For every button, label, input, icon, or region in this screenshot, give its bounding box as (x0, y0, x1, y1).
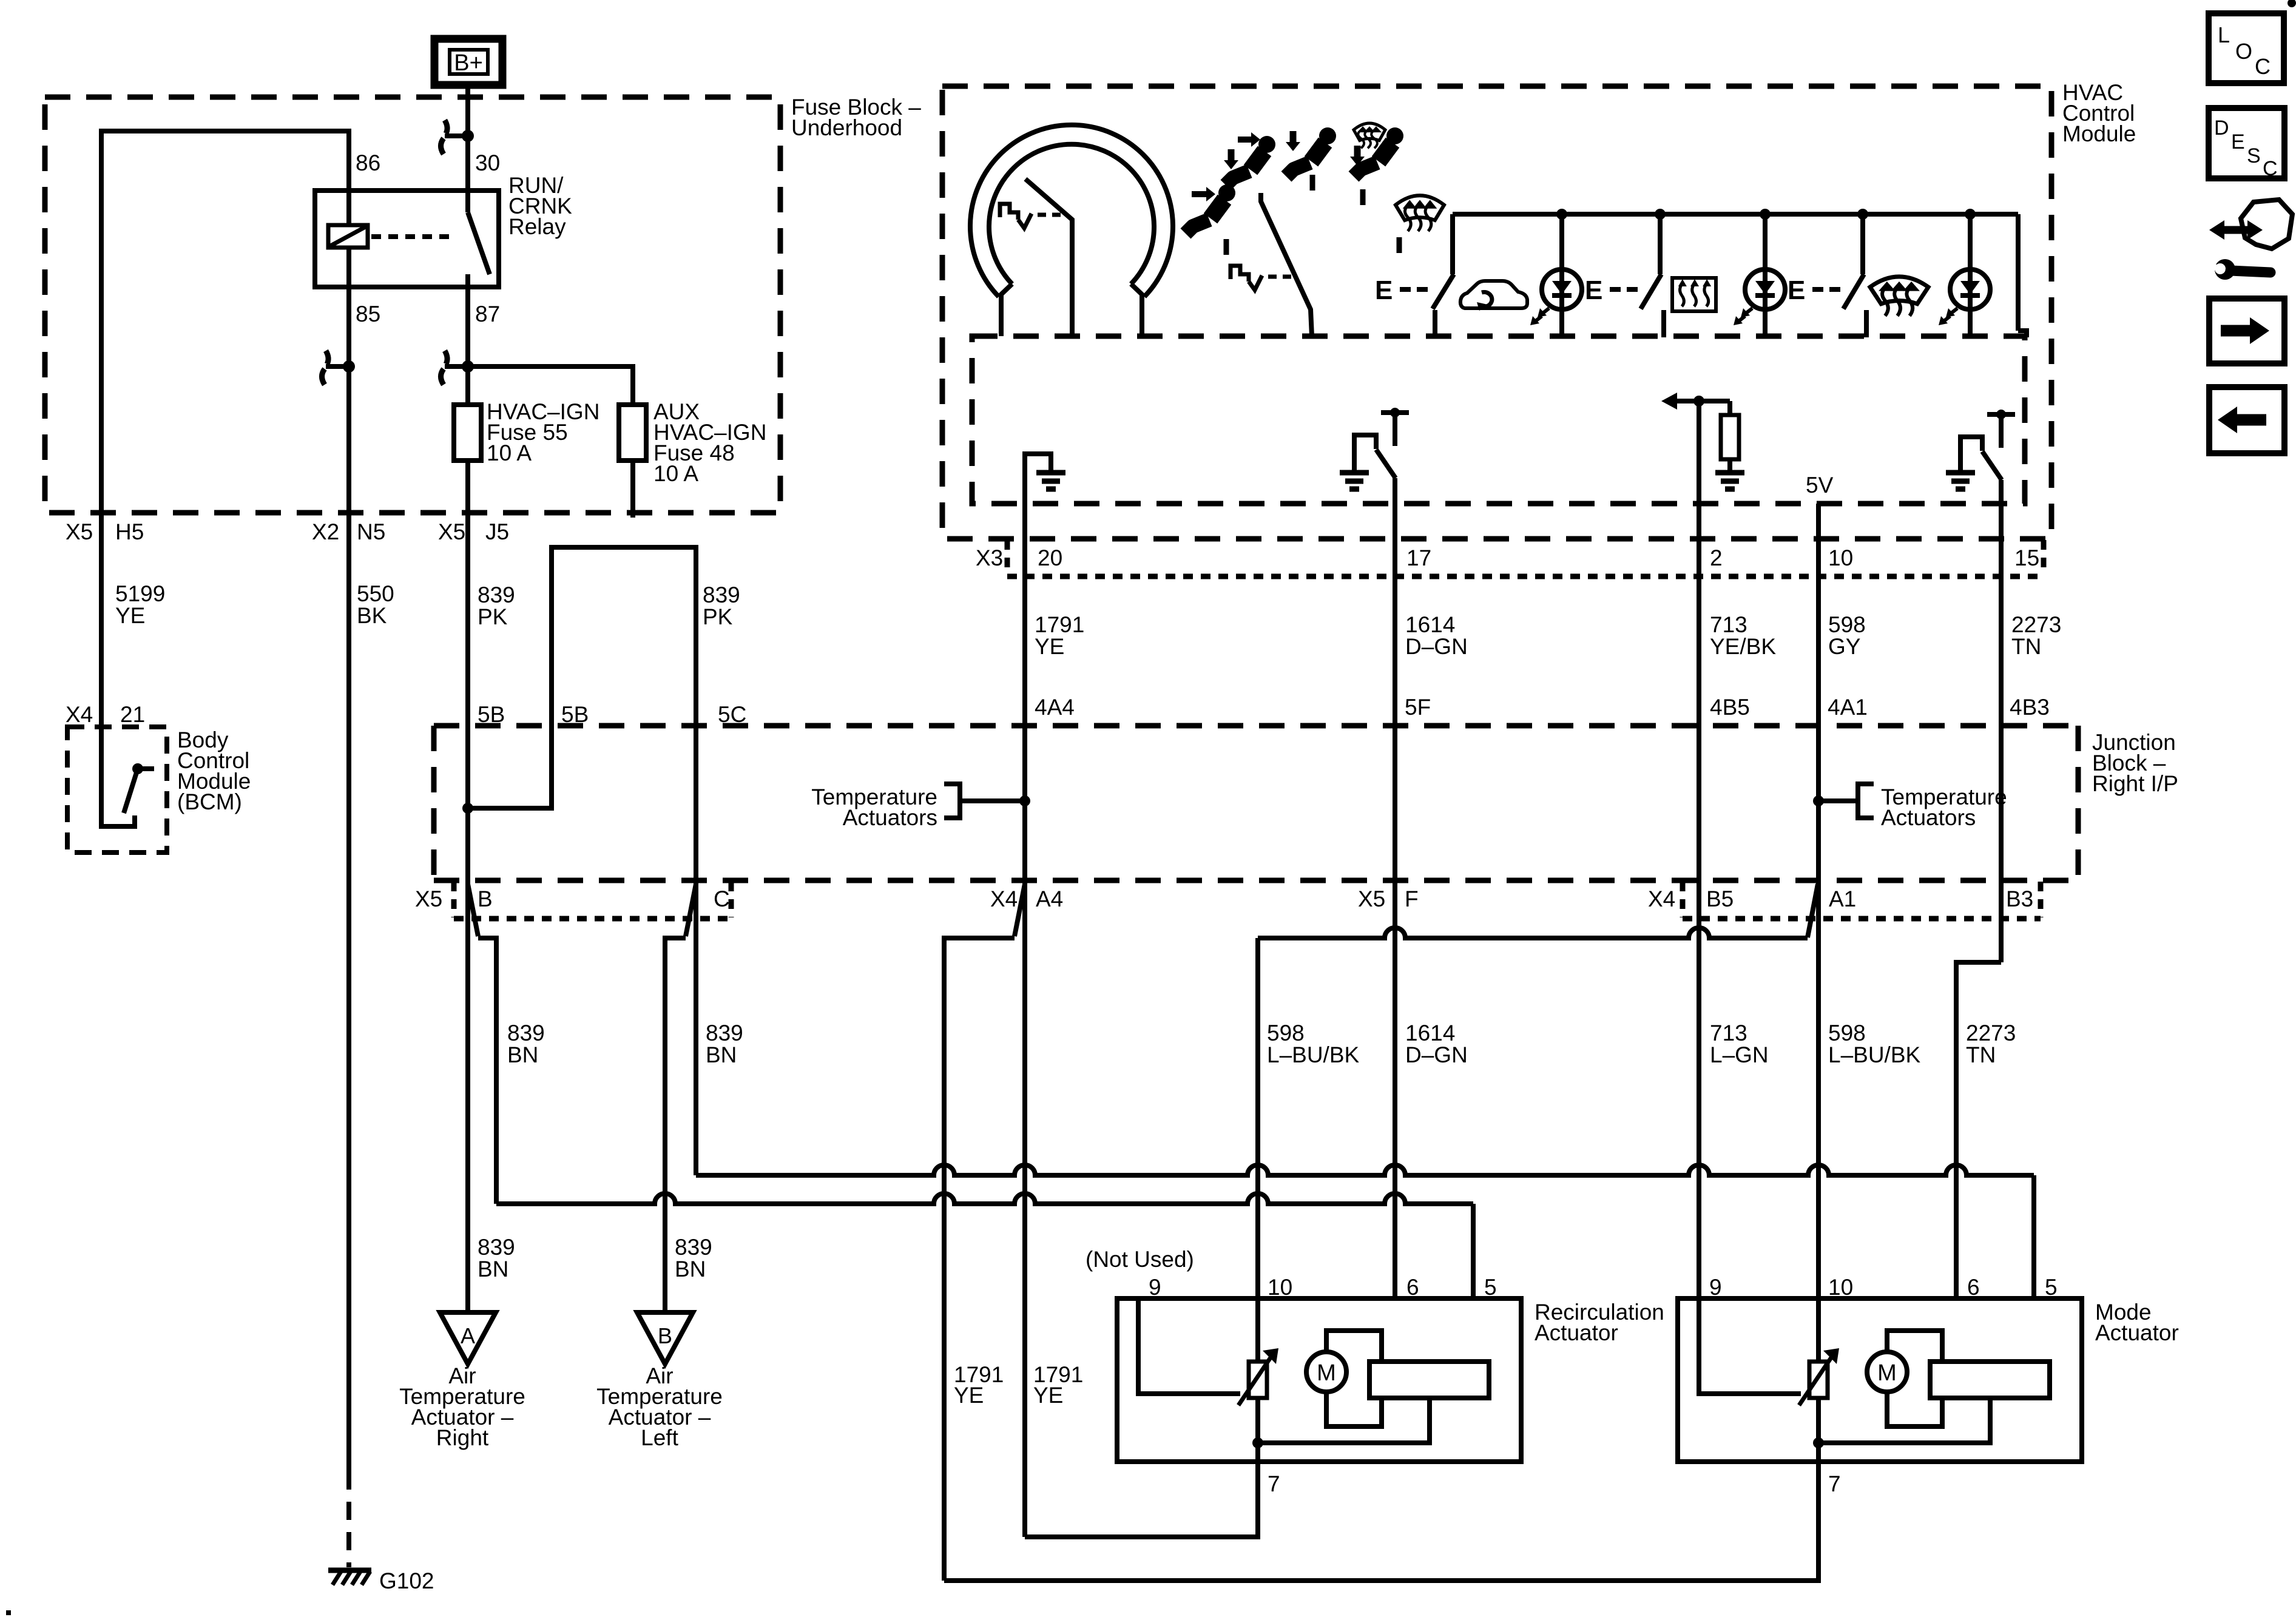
rear defrost icon (1672, 278, 1716, 311)
svg-text:X3: X3 (976, 545, 1003, 570)
connector X4 B5 A1 B3 box (1680, 882, 1686, 917)
svg-text:X5: X5 (1358, 886, 1385, 911)
connector X5 B C box (451, 882, 457, 917)
page artifact dots (2288, 0, 2296, 7)
svg-text:G102: G102 (379, 1568, 434, 1593)
body control module dashed box (67, 727, 167, 852)
svg-text:6: 6 (1967, 1275, 1980, 1300)
jog bus A1 to recirc pin 10 (1258, 928, 1808, 938)
motor lead wires (1326, 1331, 1382, 1362)
wire mode pin 7 return (1791 YE) (944, 1462, 1818, 1581)
svg-text:Module: Module (2062, 121, 2136, 146)
relay switch contact (465, 191, 470, 212)
fuse block - underhood dashed box (45, 97, 780, 513)
svg-text:L–BU/BK: L–BU/BK (1828, 1042, 1921, 1067)
branch wire to AUX fuse (468, 366, 633, 405)
svg-text:2273: 2273 (1966, 1021, 2016, 1045)
wire recirc pin 7 return (1791 YE) (1025, 1462, 1258, 1537)
svg-text:B: B (478, 886, 493, 911)
svg-text:10: 10 (1828, 545, 1853, 570)
knob Ev motor symbol (1000, 204, 1018, 220)
svg-text:A4: A4 (1036, 886, 1063, 911)
svg-text:20: 20 (1038, 545, 1062, 570)
svg-text:GY: GY (1828, 634, 1860, 659)
svg-text:87: 87 (475, 302, 500, 326)
svg-text:Right: Right (436, 1425, 489, 1450)
recirculation switch arm (1450, 214, 1455, 274)
relay coil (328, 225, 368, 248)
svg-text:1791: 1791 (1035, 612, 1084, 637)
pin 9 internal wire (1699, 1301, 1801, 1394)
svg-text:TN: TN (1966, 1042, 1996, 1067)
svg-text:C: C (2255, 54, 2271, 79)
wire X4-B3 jog (2273 TN) (1956, 962, 2001, 1298)
rear defrost switch arm (1658, 214, 1663, 274)
wire HVAC pin 10 (598 GY) (1816, 504, 1821, 1298)
svg-text:BN: BN (507, 1042, 538, 1067)
rail junction dots (1556, 209, 1567, 220)
terminal bar (1930, 1362, 2050, 1398)
ground wire dashed to G102 (346, 1471, 351, 1567)
svg-text:B5: B5 (1706, 886, 1734, 911)
svg-text:4A1: 4A1 (1828, 695, 1868, 720)
svg-text:E: E (1375, 275, 1393, 305)
svg-text:839: 839 (478, 1235, 515, 1260)
svg-text:10 A: 10 A (487, 441, 532, 465)
svg-text:4B3: 4B3 (2010, 695, 2050, 720)
svg-text:839: 839 (703, 582, 740, 607)
motor M (1306, 1352, 1346, 1392)
svg-text:Actuator: Actuator (2095, 1320, 2179, 1345)
svg-text:N5: N5 (357, 519, 385, 544)
svg-text:10: 10 (1268, 1275, 1292, 1300)
svg-text:Actuator: Actuator (1535, 1320, 1618, 1345)
svg-text:D–GN: D–GN (1405, 1042, 1468, 1067)
svg-text:10 A: 10 A (653, 461, 698, 486)
svg-text:M: M (1877, 1360, 1897, 1386)
ground G102 (328, 1568, 371, 1573)
junction dot at fuse branch (462, 361, 473, 372)
svg-text:15: 15 (2014, 545, 2039, 570)
position potentiometer (1809, 1362, 1828, 1398)
svg-text:21: 21 (120, 702, 145, 727)
junction internal loop 5B to 5C (468, 547, 696, 883)
svg-text:Underhood: Underhood (791, 115, 902, 140)
junction dot on 839 PK wire (462, 803, 473, 814)
svg-text:PK: PK (703, 604, 733, 629)
svg-text:1614: 1614 (1405, 612, 1455, 637)
fuse AUX HVAC-IGN Fuse 48 (619, 405, 646, 461)
svg-text:839: 839 (478, 582, 515, 607)
svg-text:PK: PK (478, 604, 508, 629)
svg-text:839: 839 (706, 1021, 743, 1045)
svg-text:BN: BN (706, 1042, 737, 1067)
wire B+ to relay pin 30 (465, 85, 470, 191)
clip on 550 BK wire (326, 351, 328, 364)
clip on B+ feed wire (445, 120, 447, 133)
svg-text:30: 30 (475, 150, 500, 175)
bus wire 2 to recirculation actuator pin 5 (496, 1193, 1473, 1204)
wire X5-C to bus 1 (694, 883, 698, 1175)
svg-text:A: A (461, 1323, 475, 1348)
svg-text:BN: BN (478, 1257, 508, 1281)
svg-text:839: 839 (507, 1021, 545, 1045)
svg-text:YE: YE (1033, 1383, 1063, 1408)
svg-text:A1: A1 (1829, 886, 1856, 911)
svg-text:YE: YE (1035, 634, 1064, 659)
off-page triangle A (440, 1312, 496, 1364)
svg-text:M: M (1317, 1360, 1336, 1386)
svg-text:YE: YE (954, 1383, 984, 1408)
wire HVAC pin 2 (713 YE/BK) (1697, 401, 1701, 1298)
knob wiper arm (1025, 179, 1072, 336)
svg-text:17: 17 (1406, 545, 1431, 570)
pot wires and junction dot (1255, 1298, 1260, 1362)
mode Ev motor symbol (1231, 266, 1249, 282)
svg-text:BK: BK (357, 603, 387, 628)
front defrost switch arm (1860, 214, 1865, 274)
svg-text:B: B (658, 1323, 672, 1348)
pin 2 internal pullup resistor (1677, 399, 1714, 403)
svg-text:85: 85 (356, 302, 380, 326)
BCM internal switch (101, 727, 135, 826)
svg-text:O: O (2235, 39, 2252, 64)
mode icon bi-level seat (1258, 136, 1275, 153)
svg-text:L–BU/BK: L–BU/BK (1267, 1042, 1360, 1067)
recirculation car icon (1460, 281, 1527, 308)
svg-text:598: 598 (1828, 1021, 1866, 1045)
svg-text:713: 713 (1710, 1021, 1747, 1045)
svg-text:(Not Used): (Not Used) (1086, 1247, 1194, 1272)
motor M (1867, 1352, 1907, 1392)
wire HVAC pin 17 (1614 D-GN) (1393, 478, 1397, 1298)
terminal bar (1369, 1362, 1489, 1398)
svg-text:86: 86 (356, 150, 380, 175)
wire X4-A4 jog (1791 YE) (1015, 884, 1025, 936)
svg-text:9: 9 (1149, 1275, 1161, 1300)
svg-text:6: 6 (1406, 1275, 1419, 1300)
svg-text:9: 9 (1709, 1275, 1722, 1300)
wire below fuse 48 to fuse block edge (630, 461, 635, 518)
svg-text:C: C (2263, 157, 2278, 180)
LED indicator 3 (1968, 214, 1973, 337)
svg-text:E: E (1788, 275, 1805, 305)
front defrost icon (1870, 277, 1928, 304)
pin 17 internal switch to ground (1381, 410, 1409, 415)
svg-text:550: 550 (357, 581, 394, 606)
svg-text:Right I/P: Right I/P (2092, 771, 2178, 796)
svg-text:1614: 1614 (1405, 1021, 1455, 1045)
mode switch contact ticks (1224, 239, 1229, 255)
svg-text:839: 839 (675, 1235, 712, 1260)
svg-text:C: C (714, 886, 730, 911)
Recirculation Actuator box (1117, 1298, 1521, 1462)
mode icon floor-defrost seat (1386, 127, 1403, 144)
HVAC module inner electronics dashed box (972, 336, 2025, 504)
svg-text:4A4: 4A4 (1035, 695, 1075, 720)
svg-text:Actuators: Actuators (843, 805, 937, 830)
svg-text:J5: J5 (485, 519, 509, 544)
position potentiometer (1249, 1362, 1267, 1398)
icon box arrow right (2209, 299, 2284, 363)
wire relay pin 87 to fuses (839 PK) (465, 287, 470, 405)
HVAC control module dashed box (942, 86, 2051, 539)
svg-text:L: L (2218, 22, 2230, 47)
svg-text:X4: X4 (990, 886, 1018, 911)
svg-text:4B5: 4B5 (1710, 695, 1750, 720)
svg-text:598: 598 (1267, 1021, 1305, 1045)
svg-text:F: F (1405, 886, 1419, 911)
svg-text:D: D (2214, 116, 2229, 140)
svg-text:5: 5 (1484, 1275, 1497, 1300)
mode icon vent seat (1218, 184, 1235, 201)
svg-text:10: 10 (1828, 1275, 1853, 1300)
clip on 839 PK wire (445, 351, 447, 364)
indicator rail (1453, 212, 2018, 217)
svg-text:X2: X2 (312, 519, 339, 544)
junction block dashed box (434, 723, 2078, 729)
pin 9 internal wire (1138, 1301, 1240, 1394)
svg-text:H5: H5 (115, 519, 144, 544)
wire below fuse 55 (465, 461, 470, 883)
fuse HVAC-IGN Fuse 55 (454, 405, 481, 461)
svg-text:5199: 5199 (115, 581, 165, 606)
wire HVAC pin 20 (1791 YE) (1022, 504, 1027, 1537)
icon box LOC (2209, 13, 2284, 83)
svg-text:E: E (1585, 275, 1602, 305)
pot wires and junction dot (1816, 1298, 1821, 1362)
wire relay pin 85 to X2-N5 (550 BK) (346, 287, 351, 1471)
svg-text:X4: X4 (1648, 886, 1675, 911)
wire HVAC pin 15 (2273 TN) (1999, 480, 2004, 962)
svg-text:X5: X5 (438, 519, 465, 544)
connector X3 row (1005, 540, 1010, 575)
svg-text:X4: X4 (66, 702, 93, 727)
svg-text:D–GN: D–GN (1405, 634, 1468, 659)
wire X5-B jog to bus (839 BN) (468, 884, 478, 936)
svg-text:B+: B+ (454, 50, 483, 76)
knob leg wires (999, 295, 1004, 336)
svg-text:598: 598 (1828, 612, 1866, 637)
svg-text:Left: Left (641, 1425, 678, 1450)
mode icon windshield defrost (1396, 195, 1444, 220)
bus wire 1 to mode actuator pin 5 (696, 1165, 2034, 1175)
icon box DESC (2209, 108, 2284, 178)
svg-text:L–GN: L–GN (1710, 1042, 1769, 1067)
svg-text:Relay: Relay (508, 214, 566, 239)
svg-text:2273: 2273 (2011, 612, 2061, 637)
svg-text:(BCM): (BCM) (177, 789, 242, 814)
svg-text:YE: YE (115, 603, 145, 628)
B+ power feed box (434, 39, 502, 85)
icon box arrow left (2209, 387, 2284, 453)
LED indicator 2 (1763, 214, 1768, 337)
motor lead wires (1887, 1331, 1942, 1362)
svg-text:7: 7 (1828, 1471, 1841, 1496)
svg-text:2: 2 (1710, 545, 1723, 570)
LED indicator 1 (1559, 214, 1564, 337)
svg-text:Actuators: Actuators (1881, 805, 1976, 830)
wire X4-A1 jog (598 L-BU/BK) (1808, 884, 1818, 937)
mode icon floor seat (1319, 127, 1336, 144)
svg-text:X5: X5 (66, 519, 93, 544)
svg-text:BN: BN (675, 1257, 706, 1281)
temperature knob dial (970, 125, 1173, 297)
svg-text:5V: 5V (1806, 473, 1834, 498)
wire relay pin 86 to X5-H5 (5199 YE) (101, 131, 349, 727)
svg-text:7: 7 (1268, 1471, 1280, 1496)
off-page triangle B (637, 1312, 693, 1364)
wire X5-C jog to air temp actuator left (839 BN) (686, 884, 696, 936)
relay coil-contact dashed link (371, 234, 450, 239)
svg-text:TN: TN (2011, 634, 2041, 659)
svg-text:B3: B3 (2006, 886, 2033, 911)
Mode Actuator box (1678, 1298, 2082, 1462)
relay RUN/CRNK box (315, 191, 499, 287)
svg-text:E: E (2231, 130, 2245, 154)
icon connector with wrench (2222, 226, 2251, 234)
temperature actuators tap right (1818, 798, 1858, 803)
svg-text:X5: X5 (415, 886, 442, 911)
svg-text:YE/BK: YE/BK (1710, 634, 1776, 659)
mode switch wiper arm (1261, 193, 1312, 336)
svg-text:5F: 5F (1405, 695, 1431, 720)
svg-text:S: S (2247, 144, 2261, 167)
pin 15 internal switch to ground (1987, 412, 2015, 417)
svg-text:5: 5 (2045, 1275, 2058, 1300)
wire X5-B to air temp actuator right (839 BN) (465, 883, 470, 1312)
pin 20 internal ground (1025, 454, 1051, 504)
svg-text:713: 713 (1710, 612, 1747, 637)
